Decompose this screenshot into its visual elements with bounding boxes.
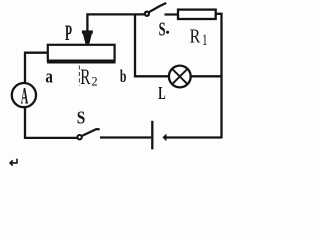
svg-text:R: R	[190, 25, 201, 47]
rheostat R2	[47, 45, 116, 63]
svg-text:S: S	[77, 107, 86, 127]
svg-text:P: P	[65, 20, 72, 45]
svg-text:A: A	[21, 83, 29, 109]
wire	[135, 14, 169, 76]
switch S	[77, 129, 151, 139]
svg-text:S: S	[159, 18, 166, 41]
wire	[87, 14, 144, 31]
ammeter A	[12, 83, 36, 109]
label R2	[79, 65, 97, 89]
resistor R1	[178, 10, 216, 19]
battery	[152, 121, 221, 150]
svg-text:↵: ↵	[9, 155, 20, 168]
wire	[191, 75, 222, 77]
lamp L	[169, 66, 191, 88]
wire	[25, 107, 77, 138]
svg-text:L: L	[158, 85, 165, 104]
wire	[216, 14, 222, 139]
label R1	[190, 25, 208, 49]
wire	[25, 53, 48, 83]
svg-text:1: 1	[202, 31, 208, 48]
slider P	[82, 30, 93, 44]
svg-text:a: a	[45, 66, 53, 87]
switch S1	[145, 3, 179, 16]
svg-text:2: 2	[91, 75, 97, 89]
svg-text:b: b	[120, 68, 127, 87]
label S1	[159, 18, 170, 41]
svg-text:R: R	[80, 65, 90, 89]
